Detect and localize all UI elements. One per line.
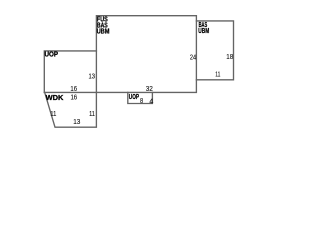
svg-text:UBM: UBM bbox=[97, 29, 110, 36]
small porch UOP outline bbox=[128, 92, 153, 103]
wood deck WDK outline bbox=[45, 92, 97, 127]
svg-text:13: 13 bbox=[89, 74, 96, 81]
svg-text:4: 4 bbox=[149, 99, 153, 106]
svg-text:16: 16 bbox=[70, 94, 77, 101]
svg-text:11: 11 bbox=[50, 111, 56, 118]
svg-text:24: 24 bbox=[190, 55, 196, 62]
left porch UOP outline bbox=[44, 51, 96, 93]
svg-text:11: 11 bbox=[89, 111, 95, 118]
svg-text:16: 16 bbox=[70, 86, 77, 93]
svg-text:13: 13 bbox=[73, 119, 80, 126]
svg-text:18: 18 bbox=[226, 54, 233, 61]
main building outline BAS/FUS/UBM bbox=[96, 16, 196, 93]
svg-text:11: 11 bbox=[215, 72, 220, 79]
svg-text:32: 32 bbox=[146, 86, 153, 93]
svg-text:WDK: WDK bbox=[46, 95, 64, 102]
shared bottom line left of main bbox=[44, 91, 96, 93]
svg-text:UOP: UOP bbox=[45, 51, 59, 58]
svg-text:8: 8 bbox=[140, 98, 143, 105]
right addition BAS/UBM outline bbox=[196, 21, 233, 80]
svg-text:UOP: UOP bbox=[129, 94, 139, 101]
svg-text:UBM: UBM bbox=[198, 28, 209, 35]
